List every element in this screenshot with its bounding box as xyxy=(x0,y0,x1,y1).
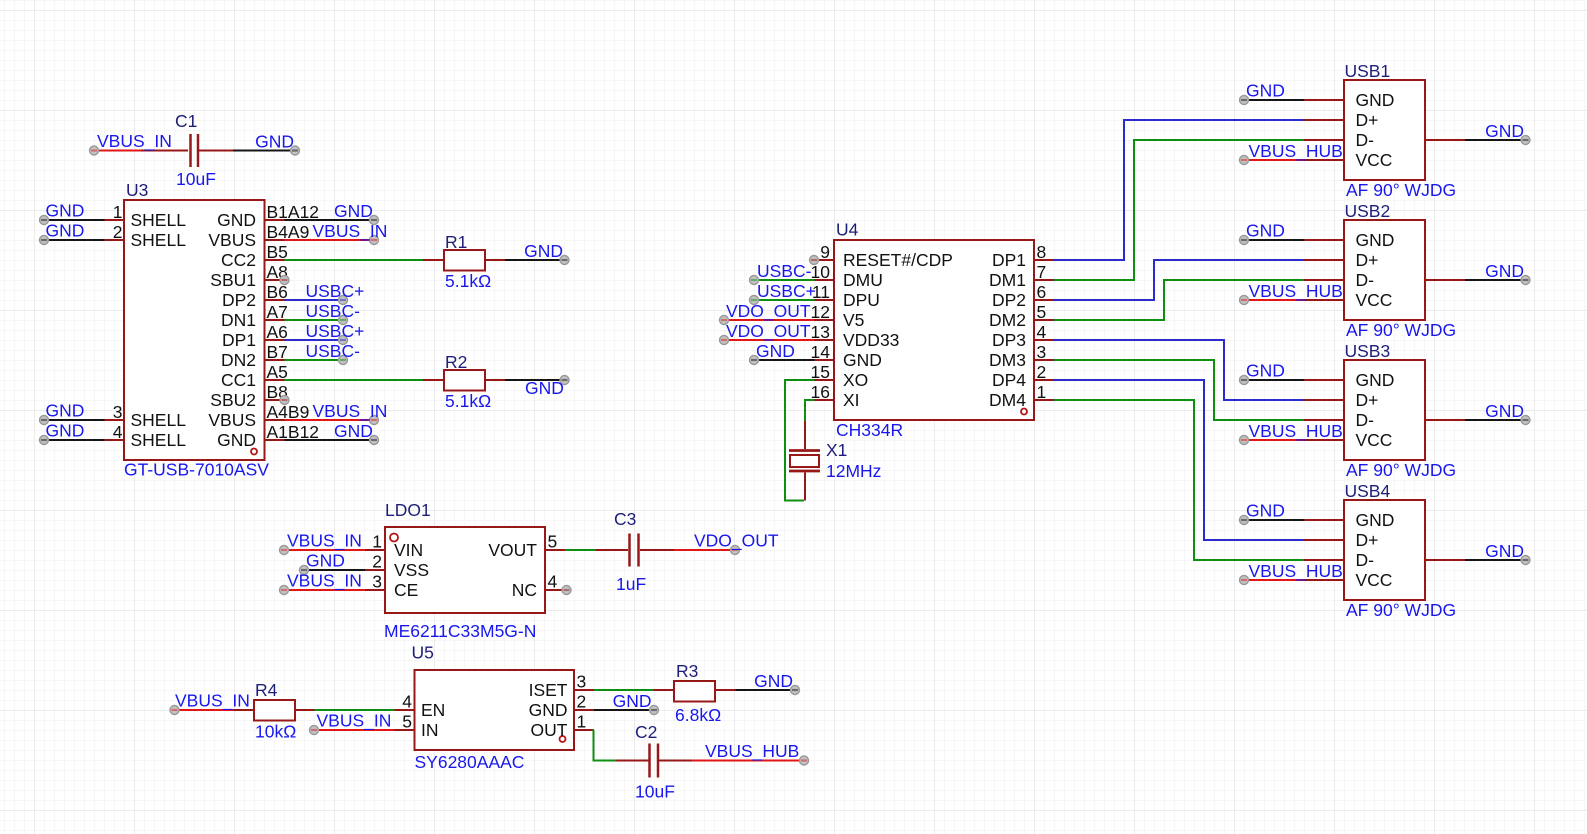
svg-text:DP1: DP1 xyxy=(992,250,1026,270)
U4 pin 8 lead xyxy=(1034,259,1054,261)
svg-text:SHELL: SHELL xyxy=(131,230,187,250)
wire net GND at USB1 shield xyxy=(1465,136,1530,145)
connector USB3 AF 90 WJDG xyxy=(1344,360,1425,460)
USB2 pin GND lead xyxy=(1304,239,1344,241)
U4 pin 14 lead xyxy=(815,359,835,361)
wire net VBUS_IN at C1 xyxy=(90,146,144,155)
connector USB1 AF 90 WJDG xyxy=(1344,80,1425,180)
LDO1 pin 2 lead xyxy=(365,569,385,571)
svg-text:SY6280AAAC: SY6280AAAC xyxy=(415,752,525,772)
svg-text:R1: R1 xyxy=(445,232,467,252)
svg-text:VBUS_IN: VBUS_IN xyxy=(97,131,172,152)
USB1 shield pin lead xyxy=(1425,139,1465,141)
svg-text:DP3: DP3 xyxy=(992,330,1026,350)
wire net GND at U3 pin 3 xyxy=(40,416,105,425)
USB2 pin VCC lead xyxy=(1304,299,1344,301)
svg-text:USB4: USB4 xyxy=(1345,481,1391,501)
svg-text:5: 5 xyxy=(402,712,412,732)
svg-text:GT-USB-7010ASV: GT-USB-7010ASV xyxy=(124,460,269,480)
wire net DP2 U4 to USB connector xyxy=(1054,260,1304,300)
svg-text:3: 3 xyxy=(372,572,382,592)
wire net DM4 U4 to USB connector xyxy=(1054,400,1304,560)
wire net GND at USB3 GND xyxy=(1240,376,1305,385)
svg-text:10uF: 10uF xyxy=(176,169,216,189)
svg-text:DN1: DN1 xyxy=(221,310,256,330)
svg-text:V5: V5 xyxy=(843,310,864,330)
svg-text:U4: U4 xyxy=(836,220,859,240)
U4 pin 2 lead xyxy=(1034,379,1054,381)
svg-text:C1: C1 xyxy=(175,111,197,131)
USB1 pin GND lead xyxy=(1304,99,1344,101)
wire net CC2 U3 B5 to R1 xyxy=(285,259,424,261)
svg-text:GND: GND xyxy=(217,430,256,450)
svg-text:VBUS_HUB: VBUS_HUB xyxy=(1249,561,1343,582)
svg-text:ME6211C33M5G-N: ME6211C33M5G-N xyxy=(384,621,536,641)
svg-text:RESET#/CDP: RESET#/CDP xyxy=(843,250,953,270)
wire net USBC- at U3 B7 xyxy=(285,356,348,365)
resistor R4 xyxy=(234,700,315,721)
svg-text:DP2: DP2 xyxy=(992,290,1026,310)
svg-text:D-: D- xyxy=(1356,130,1375,150)
capacitor C3 xyxy=(596,534,674,567)
USB3 pin VCC lead xyxy=(1304,439,1344,441)
svg-text:VCC: VCC xyxy=(1356,430,1393,450)
wire net DM3 U4 to USB connector xyxy=(1054,360,1304,420)
svg-text:VDO_OUT: VDO_OUT xyxy=(694,531,779,552)
svg-text:USBC+: USBC+ xyxy=(757,281,816,301)
U4 pin 12 lead xyxy=(815,319,835,321)
svg-text:NC: NC xyxy=(512,580,537,600)
svg-text:AF 90° WJDG: AF 90° WJDG xyxy=(1346,600,1456,620)
svg-text:D-: D- xyxy=(1356,410,1375,430)
svg-text:3: 3 xyxy=(577,672,587,692)
U4 pin 7 lead xyxy=(1034,279,1054,281)
svg-text:5: 5 xyxy=(1037,302,1047,322)
svg-text:SHELL: SHELL xyxy=(131,210,187,230)
svg-text:GND: GND xyxy=(46,401,85,421)
U4 pin 9 open end xyxy=(810,256,819,265)
wire net GND at USB2 shield xyxy=(1465,276,1530,285)
svg-text:VDO_OUT: VDO_OUT xyxy=(726,301,811,322)
wire net VBUS_HUB U5 OUT to C2 xyxy=(594,730,616,761)
svg-text:DM4: DM4 xyxy=(989,390,1026,410)
wire net GND at USB1 GND xyxy=(1240,96,1305,105)
U4 pin 16 lead xyxy=(815,399,835,401)
wire net VDO_OUT at U4 V5 xyxy=(720,316,815,325)
wire net USBC- at U4 DMU xyxy=(750,276,815,285)
IC U5 SY6280AAAC xyxy=(415,670,575,750)
U4 pin 6 lead xyxy=(1034,299,1054,301)
svg-text:USBC+: USBC+ xyxy=(306,321,365,341)
svg-text:10kΩ: 10kΩ xyxy=(255,722,296,742)
U3 pin B6 lead xyxy=(265,299,285,301)
svg-text:GND: GND xyxy=(1485,541,1524,561)
capacitor C1 xyxy=(141,134,233,167)
svg-text:VBUS_IN: VBUS_IN xyxy=(317,711,392,732)
svg-text:D+: D+ xyxy=(1356,390,1379,410)
svg-text:VDO_OUT: VDO_OUT xyxy=(726,321,811,342)
USB3 pin GND lead xyxy=(1304,379,1344,381)
resistor R3 xyxy=(654,681,736,702)
U5 pin 3 lead xyxy=(574,689,594,691)
wire net USBC+ at U4 DPU xyxy=(750,296,815,305)
svg-text:1: 1 xyxy=(1037,382,1047,402)
svg-text:2: 2 xyxy=(372,552,382,572)
svg-text:VSS: VSS xyxy=(394,560,429,580)
svg-text:GND: GND xyxy=(46,221,85,241)
svg-text:GND: GND xyxy=(529,700,568,720)
U4 pin 15 lead xyxy=(815,379,835,381)
wire net GND at U3 pin 4 xyxy=(40,436,105,445)
wire net GND at R3 xyxy=(736,686,800,695)
U4 pin 5 lead xyxy=(1034,319,1054,321)
svg-text:GND: GND xyxy=(1246,221,1285,241)
svg-text:VBUS_IN: VBUS_IN xyxy=(175,691,250,712)
wire net VBUS_IN at R4 xyxy=(170,706,234,715)
svg-text:SBU2: SBU2 xyxy=(210,390,256,410)
U3 pin A5 lead xyxy=(265,379,285,381)
USB2 pin D- lead xyxy=(1304,279,1344,281)
LDO1 pin 4 lead xyxy=(545,586,571,595)
svg-text:3: 3 xyxy=(113,402,123,422)
USB4 pin D+ lead xyxy=(1304,539,1344,541)
USB2 pin D+ lead xyxy=(1304,259,1344,261)
USB3 pin D+ lead xyxy=(1304,399,1344,401)
svg-text:D-: D- xyxy=(1356,550,1375,570)
wire net GND at USB2 GND xyxy=(1240,236,1305,245)
wire net VBUS_IN at LDO1 VIN xyxy=(280,546,366,555)
LDO1 pin 5 lead xyxy=(545,549,565,551)
wire net GND at USB4 shield xyxy=(1465,556,1530,565)
svg-text:GND: GND xyxy=(1485,121,1524,141)
wire net VDO_OUT at U4 VDD33 xyxy=(720,336,815,345)
svg-text:DP2: DP2 xyxy=(222,290,256,310)
U3 pin B8 open end xyxy=(280,396,289,405)
crystal X1 xyxy=(789,421,820,501)
svg-text:XO: XO xyxy=(843,370,868,390)
wire net DP1 U4 to USB connector xyxy=(1054,120,1304,260)
svg-text:VBUS_IN: VBUS_IN xyxy=(287,571,362,592)
U4 pin 13 lead xyxy=(815,339,835,341)
svg-text:2: 2 xyxy=(577,692,587,712)
svg-text:GND: GND xyxy=(334,201,373,221)
U4 pin 1 lead xyxy=(1034,399,1054,401)
wire net DM2 U4 to USB connector xyxy=(1054,280,1304,320)
svg-text:C2: C2 xyxy=(635,722,657,742)
wire net GND at USB3 shield xyxy=(1465,416,1530,425)
svg-text:VBUS_IN: VBUS_IN xyxy=(287,531,362,552)
svg-text:SHELL: SHELL xyxy=(131,430,187,450)
svg-text:DM1: DM1 xyxy=(989,270,1026,290)
wire net DP4 U4 to USB connector xyxy=(1054,380,1304,540)
LDO1 pin 1 lead xyxy=(365,549,385,551)
svg-text:7: 7 xyxy=(1037,262,1047,282)
svg-text:USB3: USB3 xyxy=(1345,341,1391,361)
wire net GND at LDO1 VSS xyxy=(300,566,366,575)
svg-text:VCC: VCC xyxy=(1356,150,1393,170)
svg-text:VBUS_HUB: VBUS_HUB xyxy=(1249,421,1343,442)
svg-text:GND: GND xyxy=(525,378,564,398)
svg-text:R3: R3 xyxy=(676,661,698,681)
svg-text:VBUS: VBUS xyxy=(208,230,256,250)
wire net DP3 U4 to USB connector xyxy=(1054,340,1304,400)
connector U3 GT-USB-7010ASV xyxy=(124,200,265,460)
svg-text:U3: U3 xyxy=(126,180,148,200)
wire net VDO_OUT at C3 xyxy=(674,546,740,555)
svg-text:GND: GND xyxy=(306,551,345,571)
svg-text:DP4: DP4 xyxy=(992,370,1026,390)
wire net GND at R2 xyxy=(505,376,569,385)
svg-text:1: 1 xyxy=(577,712,587,732)
wire net GND at R1 xyxy=(505,256,569,265)
svg-text:5.1kΩ: 5.1kΩ xyxy=(445,271,491,291)
svg-text:GND: GND xyxy=(756,341,795,361)
USB1 pin VCC lead xyxy=(1304,159,1344,161)
capacitor C2 xyxy=(616,744,693,778)
U4 pin 10 lead xyxy=(815,279,835,281)
wire net VBUS_IN at LDO1 CE xyxy=(280,586,366,595)
svg-text:4: 4 xyxy=(1037,322,1047,342)
U3 pin A8 lead xyxy=(265,279,285,281)
svg-text:4: 4 xyxy=(548,572,558,592)
wire net VBUS_HUB at USB2 VCC xyxy=(1240,296,1305,305)
U3 pin A7 lead xyxy=(265,319,285,321)
svg-text:CC1: CC1 xyxy=(221,370,256,390)
svg-text:USBC-: USBC- xyxy=(306,341,361,361)
wire net VBUS_HUB at USB1 VCC xyxy=(1240,156,1305,165)
LDO1 pin 3 lead xyxy=(365,589,385,591)
svg-text:USBC+: USBC+ xyxy=(306,281,365,301)
svg-text:CE: CE xyxy=(394,580,418,600)
svg-text:GND: GND xyxy=(1485,401,1524,421)
U5 pin dot near OUT xyxy=(560,736,566,742)
svg-text:5.1kΩ: 5.1kΩ xyxy=(445,391,491,411)
svg-text:9: 9 xyxy=(820,242,830,262)
IC U4 CH334R xyxy=(834,240,1034,420)
svg-text:12MHz: 12MHz xyxy=(826,461,881,481)
U3 pin 3 SHELL lead xyxy=(105,419,125,421)
svg-text:GND: GND xyxy=(754,671,793,691)
USB1 pin D+ lead xyxy=(1304,119,1344,121)
svg-text:D-: D- xyxy=(1356,270,1375,290)
U4 pin dot near DM4 xyxy=(1021,409,1027,415)
svg-text:USBC-: USBC- xyxy=(306,301,361,321)
svg-text:4: 4 xyxy=(402,692,412,712)
svg-text:AF 90° WJDG: AF 90° WJDG xyxy=(1346,320,1456,340)
U4 pin 9 lead xyxy=(815,259,835,261)
U3 pin 4 SHELL lead xyxy=(105,439,125,441)
svg-text:2: 2 xyxy=(1037,362,1047,382)
U3 pin dot near GND A1B12 xyxy=(251,449,257,455)
wire net GND at USB4 GND xyxy=(1240,516,1305,525)
U5 pin 5 lead xyxy=(395,729,415,731)
svg-text:GND: GND xyxy=(1246,81,1285,101)
wire net GND at U5 GND xyxy=(594,706,659,715)
U4 pin 11 lead xyxy=(815,299,835,301)
connector USB4 AF 90 WJDG xyxy=(1344,500,1425,600)
U3 pin 1 SHELL lead xyxy=(105,219,125,221)
regulator LDO1 ME6211C33M5G-N xyxy=(385,527,545,613)
svg-text:R2: R2 xyxy=(445,352,467,372)
svg-text:4: 4 xyxy=(113,422,123,442)
svg-text:GND: GND xyxy=(1356,90,1395,110)
svg-text:SHELL: SHELL xyxy=(131,410,187,430)
svg-text:VCC: VCC xyxy=(1356,290,1393,310)
svg-text:VDD33: VDD33 xyxy=(843,330,899,350)
svg-text:GND: GND xyxy=(613,691,652,711)
svg-text:DPU: DPU xyxy=(843,290,880,310)
wire net GND at U4 GND xyxy=(750,356,815,365)
svg-text:DP1: DP1 xyxy=(222,330,256,350)
svg-text:USB2: USB2 xyxy=(1345,201,1391,221)
svg-text:1uF: 1uF xyxy=(616,574,646,594)
svg-text:R4: R4 xyxy=(255,680,278,700)
svg-text:GND: GND xyxy=(334,421,373,441)
wire net VBUS_HUB at C2 xyxy=(692,756,809,765)
svg-text:VBUS: VBUS xyxy=(208,410,256,430)
svg-text:5: 5 xyxy=(548,532,558,552)
U3 pin B7 lead xyxy=(265,359,285,361)
svg-text:CH334R: CH334R xyxy=(836,420,903,440)
wire net GND at U3 pin 2 xyxy=(40,236,105,245)
svg-text:GND: GND xyxy=(1246,501,1285,521)
svg-text:6: 6 xyxy=(1037,282,1047,302)
svg-text:DM3: DM3 xyxy=(989,350,1026,370)
svg-text:AF 90° WJDG: AF 90° WJDG xyxy=(1346,460,1456,480)
U3 pin A8 open end xyxy=(280,276,289,285)
svg-text:GND: GND xyxy=(1485,261,1524,281)
svg-text:C3: C3 xyxy=(614,509,636,529)
svg-text:3: 3 xyxy=(1037,342,1047,362)
svg-text:D+: D+ xyxy=(1356,110,1379,130)
wire net EN R4 to U5 xyxy=(315,709,395,711)
svg-text:GND: GND xyxy=(843,350,882,370)
svg-text:GND: GND xyxy=(1356,510,1395,530)
U3 pin B5 lead xyxy=(265,259,285,261)
U5 pin 1 lead xyxy=(574,729,594,731)
svg-text:VIN: VIN xyxy=(394,540,423,560)
LDO1 pin 1 dot xyxy=(390,534,398,542)
U4 pin 3 lead xyxy=(1034,359,1054,361)
wire net GND at C1 xyxy=(233,146,300,155)
svg-text:1: 1 xyxy=(372,532,382,552)
svg-text:VBUS_HUB: VBUS_HUB xyxy=(1249,281,1343,302)
svg-text:IN: IN xyxy=(421,720,439,740)
wire net VBUS_IN at U5 IN xyxy=(310,726,395,735)
wire net XI U4 pin16 to X1 xyxy=(805,400,815,421)
svg-text:VBUS_HUB: VBUS_HUB xyxy=(1249,141,1343,162)
wire net VDO_OUT LDO1 VOUT to C3 xyxy=(565,549,596,551)
USB4 shield pin lead xyxy=(1425,559,1465,561)
U3 pin B1A12 lead xyxy=(265,219,285,221)
wire net CC1 U3 A5 to R2 xyxy=(285,379,424,381)
USB4 pin D- lead xyxy=(1304,559,1344,561)
U5 pin 4 lead xyxy=(395,709,415,711)
wire net DM1 U4 to USB connector xyxy=(1054,140,1304,280)
USB2 shield pin lead xyxy=(1425,279,1465,281)
U5 pin 2 lead xyxy=(574,709,594,711)
svg-text:D+: D+ xyxy=(1356,530,1379,550)
svg-text:X1: X1 xyxy=(826,440,847,460)
svg-text:VBUS_IN: VBUS_IN xyxy=(313,221,388,242)
svg-text:D+: D+ xyxy=(1356,250,1379,270)
U4 pin 4 lead xyxy=(1034,339,1054,341)
svg-text:8: 8 xyxy=(1037,242,1047,262)
svg-text:OUT: OUT xyxy=(531,720,568,740)
svg-text:VBUS_IN: VBUS_IN xyxy=(313,401,388,422)
wire net USBC- at U3 A7 xyxy=(285,316,348,325)
wire net VBUS_HUB at USB4 VCC xyxy=(1240,576,1305,585)
U3 pin A1B12 lead xyxy=(265,439,285,441)
wire net XO U4 pin15 to X1 xyxy=(785,380,815,501)
wire net GND at U3 pin 1 xyxy=(40,216,105,225)
svg-text:AF 90° WJDG: AF 90° WJDG xyxy=(1346,180,1456,200)
U3 pin A6 lead xyxy=(265,339,285,341)
svg-text:USBC-: USBC- xyxy=(757,261,812,281)
U3 pin A4B9 lead xyxy=(265,419,285,421)
svg-text:GND: GND xyxy=(1356,370,1395,390)
wire net ISET U5 to R3 xyxy=(594,689,654,691)
svg-text:SBU1: SBU1 xyxy=(210,270,256,290)
USB1 pin D- lead xyxy=(1304,139,1344,141)
resistor R1 xyxy=(423,250,505,271)
wire net GND at U3 B1A12 xyxy=(285,216,379,225)
USB3 pin D- lead xyxy=(1304,419,1344,421)
U3 pin 2 SHELL lead xyxy=(105,239,125,241)
svg-text:GND: GND xyxy=(46,201,85,221)
svg-text:GND: GND xyxy=(255,132,294,152)
USB4 pin GND lead xyxy=(1304,519,1344,521)
svg-text:GND: GND xyxy=(46,421,85,441)
svg-text:VBUS_HUB: VBUS_HUB xyxy=(705,741,799,762)
svg-text:XI: XI xyxy=(843,390,860,410)
wire net VBUS_HUB at USB3 VCC xyxy=(1240,436,1305,445)
svg-text:DMU: DMU xyxy=(843,270,883,290)
USB4 pin VCC lead xyxy=(1304,579,1344,581)
svg-text:6.8kΩ: 6.8kΩ xyxy=(675,705,721,725)
svg-text:GND: GND xyxy=(1356,230,1395,250)
wire net VBUS_IN at U3 A4B9 xyxy=(285,416,379,425)
svg-text:U5: U5 xyxy=(412,643,434,663)
svg-text:DN2: DN2 xyxy=(221,350,256,370)
U3 pin B4A9 lead xyxy=(265,239,285,241)
svg-text:GND: GND xyxy=(1246,361,1285,381)
svg-text:EN: EN xyxy=(421,700,445,720)
svg-text:GND: GND xyxy=(217,210,256,230)
connector USB2 AF 90 WJDG xyxy=(1344,220,1425,320)
USB3 shield pin lead xyxy=(1425,419,1465,421)
svg-text:CC2: CC2 xyxy=(221,250,256,270)
svg-text:GND: GND xyxy=(524,241,563,261)
svg-text:ISET: ISET xyxy=(529,680,568,700)
wire net GND at U3 A1B12 xyxy=(285,436,379,445)
wire net USBC+ at U3 B6 xyxy=(285,296,348,305)
svg-text:USB1: USB1 xyxy=(1345,61,1391,81)
svg-text:VOUT: VOUT xyxy=(488,540,537,560)
svg-text:VCC: VCC xyxy=(1356,570,1393,590)
svg-text:10uF: 10uF xyxy=(635,782,675,802)
wire net VBUS_IN at U3 B4A9 xyxy=(285,236,379,245)
svg-text:1: 1 xyxy=(113,202,123,222)
svg-text:DM2: DM2 xyxy=(989,310,1026,330)
U3 pin B8 lead xyxy=(265,399,285,401)
svg-text:2: 2 xyxy=(113,222,123,242)
svg-text:LDO1: LDO1 xyxy=(385,500,431,520)
resistor R2 xyxy=(423,370,505,391)
wire net USBC+ at U3 A6 xyxy=(285,336,348,345)
